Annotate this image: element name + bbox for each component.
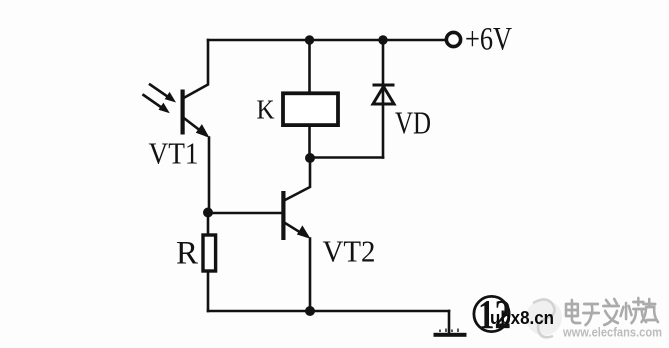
- svg-text:R: R: [176, 236, 198, 272]
- svg-text:+6V: +6V: [465, 22, 512, 58]
- svg-text:VT1: VT1: [149, 136, 199, 171]
- svg-text:VT2: VT2: [323, 234, 376, 269]
- svg-text:www.elecfans.com: www.elecfans.com: [562, 325, 662, 340]
- svg-text:K: K: [257, 95, 275, 125]
- svg-text:VD: VD: [395, 105, 431, 141]
- svg-text:ubx8.cn: ubx8.cn: [490, 308, 554, 328]
